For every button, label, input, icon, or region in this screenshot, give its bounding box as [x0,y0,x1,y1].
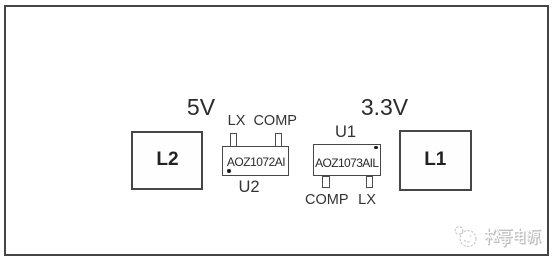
U2 pin-1 dot [227,169,231,173]
U1 pin-1 dot [374,146,378,150]
converter U2 body [222,146,289,176]
value label AOZ1073AIL [315,157,378,169]
U1 pin LX [366,176,374,189]
watermark text 松哥电源 (embossed) [486,230,541,247]
watermark [452,226,548,250]
net label 5V [187,96,215,119]
pin label LX (U1) [358,193,376,208]
watermark logo [455,227,476,247]
converter U1 body [313,144,381,176]
value label AOZ1072AI [227,156,285,168]
label L1 [424,150,446,169]
inductor L2 [131,131,203,190]
label L2 [156,150,178,169]
pin label COMP (U2) [253,114,297,129]
U1 pin COMP [322,176,330,189]
U2 pin COMP [275,133,282,147]
net label 3.3V [361,96,408,119]
inductor L1 [399,130,472,191]
pin label LX (U2) [228,114,246,129]
designator U2 [238,179,259,196]
U2 pin LX [230,133,237,147]
designator U1 [335,124,356,141]
pin label COMP (U1) [305,193,349,208]
